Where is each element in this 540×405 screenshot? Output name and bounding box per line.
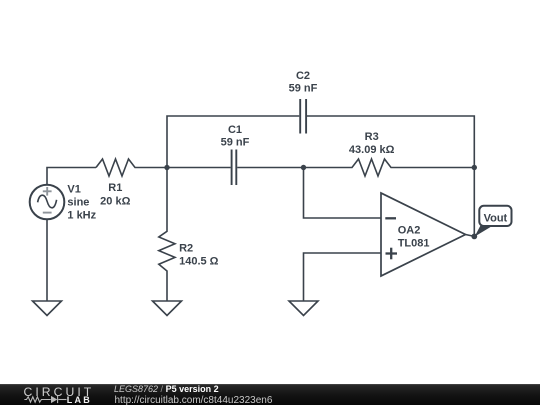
svg-text:1 kHz: 1 kHz	[67, 209, 96, 221]
svg-text:LEGS8762 / P5 version 2: LEGS8762 / P5 version 2	[114, 384, 219, 394]
svg-text:LAB: LAB	[67, 395, 92, 405]
svg-text:C1: C1	[228, 124, 242, 136]
svg-text:C2: C2	[296, 70, 310, 82]
svg-text:V1: V1	[67, 183, 80, 195]
svg-text:R2: R2	[179, 243, 193, 255]
svg-text:59 nF: 59 nF	[289, 83, 318, 95]
svg-text:43.09 kΩ: 43.09 kΩ	[349, 144, 395, 156]
svg-text:http://circuitlab.com/c8t44u23: http://circuitlab.com/c8t44u2323en6	[115, 395, 273, 405]
svg-text:Vout: Vout	[484, 212, 508, 224]
svg-text:59 nF: 59 nF	[221, 137, 250, 149]
svg-text:sine: sine	[67, 196, 89, 208]
svg-text:R1: R1	[108, 182, 122, 194]
svg-text:TL081: TL081	[398, 237, 430, 249]
svg-text:140.5 Ω: 140.5 Ω	[179, 256, 219, 268]
svg-text:OA2: OA2	[398, 224, 421, 236]
svg-text:R3: R3	[365, 131, 379, 143]
svg-text:20 kΩ: 20 kΩ	[100, 196, 130, 208]
